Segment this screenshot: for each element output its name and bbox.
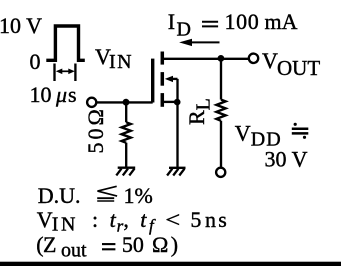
svg-text:D.U.: D.U. <box>38 183 81 208</box>
svg-text:IN: IN <box>109 51 133 73</box>
svg-text::: : <box>92 207 98 232</box>
svg-text:10: 10 <box>30 82 52 107</box>
svg-text:D: D <box>177 18 191 40</box>
svg-text:OUT: OUT <box>277 56 320 80</box>
svg-text:10 V: 10 V <box>0 13 42 38</box>
svg-text:μ: μ <box>55 82 67 107</box>
svg-text:t: t <box>110 207 117 232</box>
svg-text:s: s <box>68 82 77 107</box>
svg-text:Ω: Ω <box>152 232 168 257</box>
svg-text:0: 0 <box>30 49 41 74</box>
svg-text:V: V <box>37 207 53 232</box>
svg-text:I: I <box>168 9 175 34</box>
svg-text:5: 5 <box>190 207 201 232</box>
svg-text:30 V: 30 V <box>265 146 308 171</box>
svg-text:100: 100 <box>225 9 260 34</box>
svg-text:50Ω: 50Ω <box>83 106 108 153</box>
svg-text:1%: 1% <box>124 183 153 208</box>
svg-text:): ) <box>171 232 178 257</box>
svg-text:<: < <box>165 207 180 232</box>
svg-text:,: , <box>123 207 128 232</box>
svg-text:50: 50 <box>122 232 144 257</box>
svg-text:ns: ns <box>205 207 229 232</box>
svg-text:out: out <box>61 240 87 262</box>
svg-text:t: t <box>140 207 147 232</box>
svg-text:RL: RL <box>184 98 215 125</box>
svg-text:mA: mA <box>265 9 298 34</box>
svg-text:Z: Z <box>43 232 56 257</box>
svg-text:V: V <box>235 121 251 146</box>
svg-text:V: V <box>262 48 278 73</box>
